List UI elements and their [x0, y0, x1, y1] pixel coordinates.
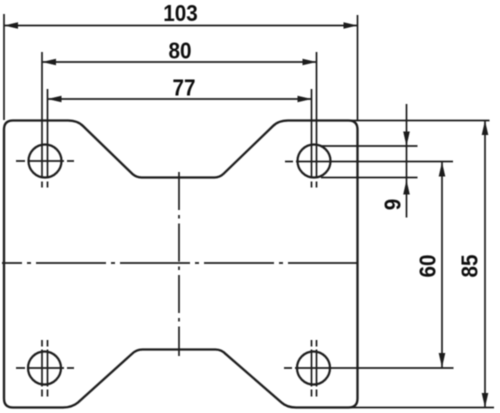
dimension line 103 — [4, 25, 358, 27]
hole bottom-left vertical centerlines — [42, 340, 48, 397]
extension line top edge for 85 — [348, 120, 490, 122]
extension line right for 77 (through top-right hole) — [311, 89, 313, 188]
hole bottom-right vertical centerlines — [312, 340, 317, 397]
extension line left for 77 (through top-left hole) — [47, 89, 49, 188]
hole top-left horizontal centerline — [16, 160, 74, 162]
hole bottom-left horizontal centerline — [16, 367, 74, 369]
vertical centerline of plate — [178, 172, 180, 356]
horizontal centerline of plate — [2, 262, 362, 264]
dimension line 60 — [441, 162, 443, 368]
extension line right for 80 (through top-right hole) — [316, 52, 318, 188]
svg-text:77: 77 — [172, 74, 195, 101]
extension line left for 103 (above plate corner) — [3, 14, 5, 120]
plate outline — [4, 121, 358, 408]
dimension line 9 lower segment with up arrow — [403, 180, 410, 195]
hole bottom-right circle — [297, 352, 330, 385]
svg-text:80: 80 — [168, 37, 191, 64]
arrowhead 103 right — [344, 22, 358, 29]
dimension line 85 — [484, 121, 486, 408]
extension line bottom edge for 85 — [348, 407, 494, 409]
extension line left for 80 (through top-left hole) — [41, 52, 43, 188]
arrowhead 60 top — [439, 162, 446, 177]
hole top-right horizontal centerline (extends to 60-dim) — [285, 161, 453, 163]
hole top-right circle — [298, 145, 331, 178]
arrowhead 80 right — [303, 59, 317, 66]
arrowhead 85 top — [482, 121, 489, 136]
arrowhead 85 bottom — [482, 393, 489, 408]
dimension line 77 — [48, 98, 312, 100]
arrowhead 77 right — [298, 96, 312, 103]
hole bottom-left circle — [28, 352, 61, 385]
arrowhead 80 left — [42, 59, 56, 66]
hole bottom-right horizontal centerline (extends to 60-dim) — [284, 367, 454, 369]
arrowhead 60 bottom — [439, 353, 446, 368]
svg-text:85: 85 — [456, 254, 483, 277]
dimension line 9 upper segment with down arrow — [406, 104, 408, 218]
hole top-left circle — [29, 145, 62, 178]
extension line right for 103 — [357, 15, 359, 120]
svg-text:60: 60 — [414, 254, 441, 277]
svg-text:9: 9 — [379, 199, 406, 211]
dimension line 80 — [42, 61, 317, 63]
extension line top tangent of hole for 9 — [321, 145, 418, 147]
svg-text:103: 103 — [163, 0, 197, 26]
extension line bottom tangent of hole for 9 — [321, 177, 418, 179]
arrowhead 77 left — [48, 96, 62, 103]
arrowhead 103 left — [4, 22, 18, 29]
